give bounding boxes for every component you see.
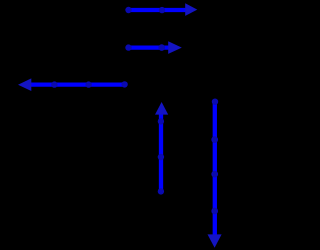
wire: arrow D shaft — [159, 114, 163, 194]
arrowhead A — [185, 3, 197, 16]
node E4 dot — [211, 208, 218, 215]
node C3 dot — [51, 81, 57, 87]
node B1 dot — [125, 44, 131, 50]
arrowhead B — [168, 41, 182, 54]
node C1 dot — [121, 81, 127, 87]
node A2 dot — [159, 7, 165, 13]
arrowhead C — [18, 78, 31, 91]
node D2 dot — [158, 154, 164, 160]
node A1 dot — [125, 7, 131, 13]
node D1 dot — [158, 188, 164, 194]
wire: arrow B shaft — [129, 45, 171, 49]
wire: arrow E shaft — [213, 100, 217, 237]
arrow D (vertical, pointing up) — [155, 102, 168, 195]
arrow E (vertical, pointing down) — [208, 99, 222, 248]
node B2 dot — [158, 44, 165, 51]
arrowhead E — [208, 234, 222, 247]
arrow B (second, pointing right) — [125, 41, 182, 54]
wire: arrow C shaft — [30, 82, 126, 86]
node E3 dot — [211, 171, 218, 178]
arrowhead D — [155, 102, 168, 115]
wire: arrow A shaft — [129, 8, 188, 12]
node C2 dot — [85, 81, 91, 87]
node E2 dot — [211, 136, 218, 143]
node E1 dot — [212, 99, 218, 105]
arrow A (top, pointing right) — [125, 3, 197, 16]
arrow C (third, pointing left) — [18, 78, 128, 91]
node D3 dot — [158, 118, 164, 124]
